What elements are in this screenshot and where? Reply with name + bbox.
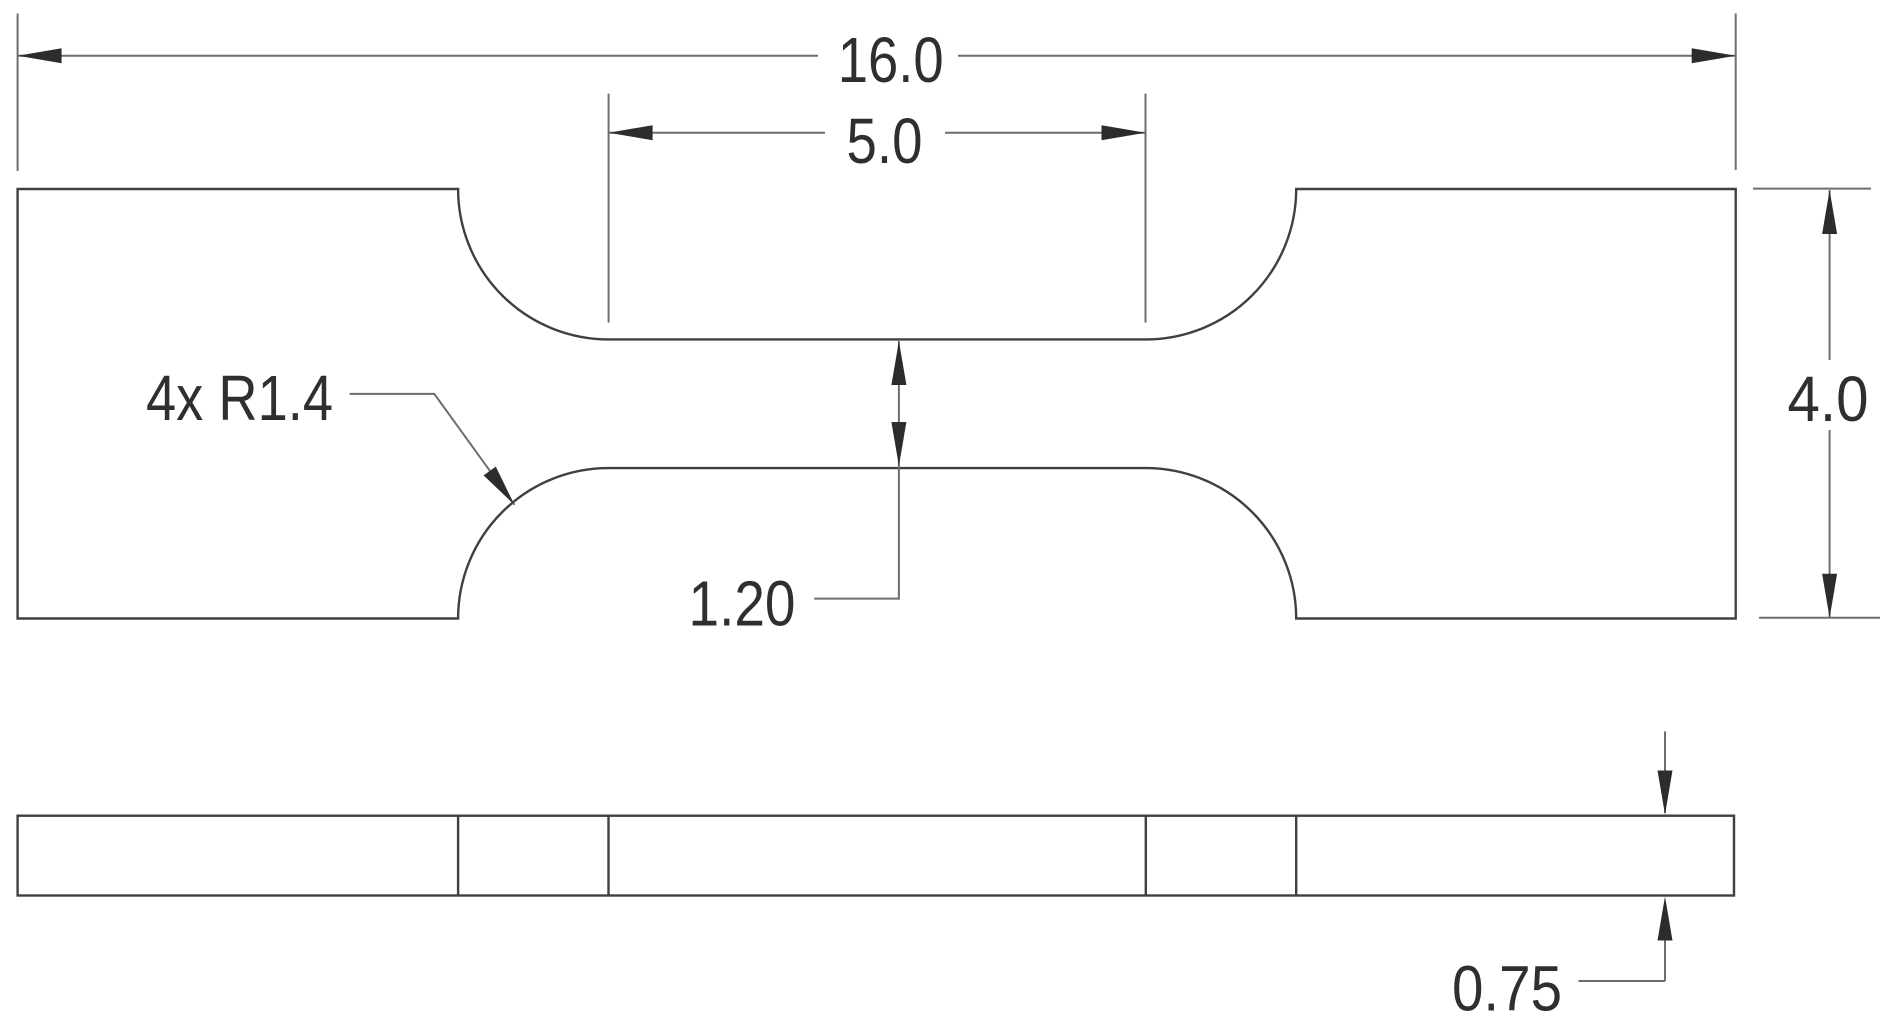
- dim 0.75 leader line: [1579, 980, 1666, 982]
- dim 1.20 dimension line: [898, 341, 900, 600]
- note 4x R1.4 leader line: [350, 394, 515, 505]
- dim 5.0 dimension line left segment: [609, 132, 825, 134]
- dim 5.0 left arrowhead: [609, 125, 653, 140]
- svg-text:16.0: 16.0: [838, 24, 944, 96]
- dim 4.0 dimension line lower segment: [1829, 430, 1831, 618]
- dim 16.0 right extension line: [1735, 14, 1737, 171]
- dim 5.0 dimension line right segment: [945, 132, 1146, 134]
- part outline: top view dogbone specimen: [18, 189, 1736, 619]
- svg-text:1.20: 1.20: [689, 568, 796, 640]
- dim 4.0 dimension line upper segment: [1829, 190, 1831, 360]
- side view tangent edge line 4: [1295, 816, 1297, 896]
- dim 5.0 right arrowhead: [1102, 125, 1146, 140]
- dim 1.20 leader line: [814, 598, 899, 600]
- dim 1.20 down arrowhead: [891, 422, 906, 466]
- dim 16.0 left arrowhead: [18, 48, 62, 63]
- svg-text:4x R1.4: 4x R1.4: [146, 362, 333, 434]
- dim 1.20 up arrowhead: [891, 341, 906, 385]
- svg-text:0.75: 0.75: [1452, 953, 1562, 1021]
- dim 16.0 dimension line right segment: [958, 55, 1736, 57]
- dim 0.75 upper dimension line: [1664, 731, 1666, 813]
- dim 4.0 bottom arrowhead: [1822, 574, 1837, 618]
- svg-text:4.0: 4.0: [1788, 363, 1869, 435]
- note 4x R1.4 leader arrowhead: [484, 467, 515, 505]
- dim 0.75 upper arrowhead (points down): [1658, 771, 1673, 815]
- side view tangent edge line 2: [607, 816, 609, 896]
- side view tangent edge line 1: [457, 816, 459, 896]
- dim 16.0 dimension line left segment: [18, 55, 818, 57]
- dim 16.0 left extension line: [17, 14, 19, 172]
- dim 4.0 top extension line: [1753, 188, 1871, 190]
- dim 0.75 lower dimension line: [1664, 940, 1666, 981]
- svg-text:5.0: 5.0: [847, 105, 923, 177]
- dim 4.0 top arrowhead: [1822, 190, 1837, 234]
- part outline: side view plate: [18, 816, 1734, 896]
- dim 5.0 left extension line: [608, 94, 610, 323]
- dim 0.75 lower arrowhead (points up): [1658, 897, 1673, 941]
- dim 4.0 bottom extension line: [1759, 617, 1880, 619]
- dim 5.0 right extension line: [1145, 94, 1147, 323]
- side view tangent edge line 3: [1145, 816, 1147, 896]
- dim 16.0 right arrowhead: [1692, 48, 1736, 63]
